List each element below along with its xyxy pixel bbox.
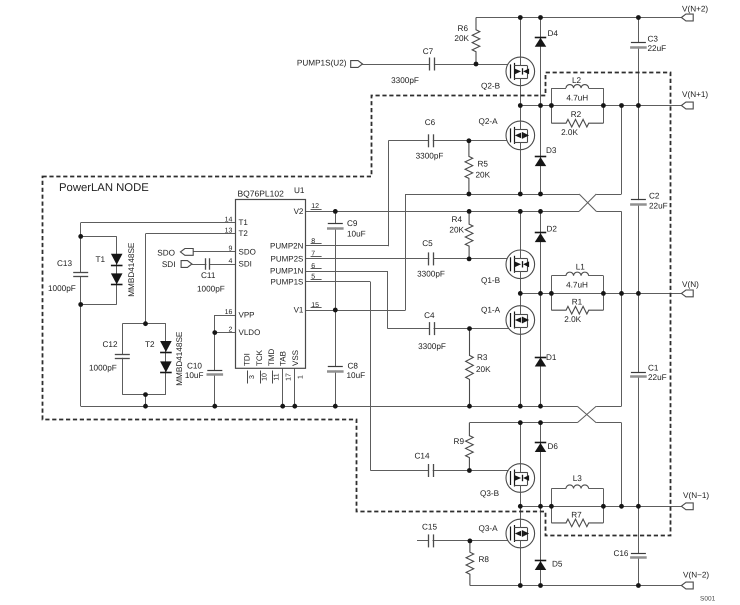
svg-text:R5: R5 bbox=[478, 159, 489, 168]
svg-text:R3: R3 bbox=[477, 353, 488, 362]
svg-text:20K: 20K bbox=[449, 226, 464, 235]
svg-text:8: 8 bbox=[311, 238, 315, 245]
svg-text:L3: L3 bbox=[573, 474, 583, 483]
svg-text:D1: D1 bbox=[546, 353, 557, 362]
svg-text:C16: C16 bbox=[613, 549, 628, 558]
svg-text:3300pF: 3300pF bbox=[391, 76, 419, 85]
svg-text:4: 4 bbox=[228, 258, 232, 265]
svg-text:22uF: 22uF bbox=[648, 44, 667, 53]
svg-text:2.0K: 2.0K bbox=[561, 128, 578, 137]
svg-text:1000pF: 1000pF bbox=[89, 363, 117, 372]
svg-text:C13: C13 bbox=[57, 259, 72, 268]
svg-text:D3: D3 bbox=[546, 146, 557, 155]
svg-text:V1: V1 bbox=[294, 305, 304, 314]
svg-text:3300pF: 3300pF bbox=[418, 342, 446, 351]
svg-text:TAB: TAB bbox=[279, 351, 288, 366]
svg-text:R4: R4 bbox=[452, 215, 463, 224]
svg-text:MMBD4148SE: MMBD4148SE bbox=[175, 331, 184, 386]
svg-text:SDI: SDI bbox=[162, 260, 176, 269]
svg-text:4.7uH: 4.7uH bbox=[566, 281, 588, 290]
svg-text:TMD: TMD bbox=[267, 348, 276, 366]
svg-text:V(N−2): V(N−2) bbox=[683, 571, 709, 580]
svg-text:D6: D6 bbox=[548, 442, 559, 451]
svg-text:10uF: 10uF bbox=[185, 371, 204, 380]
svg-text:13: 13 bbox=[225, 228, 233, 235]
svg-text:VSS: VSS bbox=[291, 350, 300, 366]
svg-text:17: 17 bbox=[285, 373, 292, 381]
svg-text:T1: T1 bbox=[239, 218, 249, 227]
svg-text:22uF: 22uF bbox=[648, 373, 667, 382]
svg-text:D5: D5 bbox=[552, 559, 563, 568]
svg-text:C6: C6 bbox=[425, 118, 436, 127]
svg-text:PUMP2S: PUMP2S bbox=[270, 254, 303, 263]
svg-text:C15: C15 bbox=[422, 522, 437, 531]
svg-text:20K: 20K bbox=[476, 170, 491, 179]
svg-text:C2: C2 bbox=[649, 192, 660, 201]
svg-text:11: 11 bbox=[273, 373, 280, 380]
svg-text:1: 1 bbox=[297, 375, 304, 379]
svg-text:C9: C9 bbox=[347, 219, 358, 228]
svg-text:14: 14 bbox=[225, 216, 233, 223]
svg-text:C7: C7 bbox=[423, 47, 434, 56]
svg-text:TDI: TDI bbox=[243, 353, 252, 366]
svg-text:V2: V2 bbox=[294, 207, 304, 216]
svg-text:C5: C5 bbox=[422, 239, 433, 248]
svg-text:Q3-A: Q3-A bbox=[479, 524, 499, 533]
svg-text:R9: R9 bbox=[454, 437, 465, 446]
svg-text:16: 16 bbox=[225, 309, 233, 316]
svg-text:PowerLAN NODE: PowerLAN NODE bbox=[59, 182, 149, 194]
svg-text:R8: R8 bbox=[479, 555, 490, 564]
svg-text:20K: 20K bbox=[476, 365, 491, 374]
svg-text:3300pF: 3300pF bbox=[417, 270, 445, 279]
svg-text:V(N+2): V(N+2) bbox=[682, 5, 708, 14]
svg-text:3300pF: 3300pF bbox=[416, 151, 444, 160]
svg-text:SDO: SDO bbox=[239, 247, 256, 256]
svg-text:V(N+1): V(N+1) bbox=[682, 90, 708, 99]
svg-text:C4: C4 bbox=[424, 311, 435, 320]
svg-text:S001: S001 bbox=[700, 596, 716, 603]
svg-text:2: 2 bbox=[228, 326, 232, 333]
svg-text:PUMP1S(U2): PUMP1S(U2) bbox=[297, 58, 347, 67]
svg-text:C8: C8 bbox=[348, 361, 359, 370]
svg-text:D4: D4 bbox=[548, 29, 559, 38]
svg-text:C12: C12 bbox=[103, 340, 118, 349]
svg-text:22uF: 22uF bbox=[649, 201, 668, 210]
svg-text:1000pF: 1000pF bbox=[48, 284, 76, 293]
svg-text:L1: L1 bbox=[576, 263, 586, 272]
svg-text:C1: C1 bbox=[648, 363, 659, 372]
svg-text:PUMP1S: PUMP1S bbox=[270, 277, 303, 286]
svg-text:C11: C11 bbox=[201, 271, 216, 280]
svg-text:TCK: TCK bbox=[255, 349, 264, 366]
svg-text:9: 9 bbox=[228, 246, 232, 253]
svg-text:PUMP2N: PUMP2N bbox=[270, 242, 304, 251]
svg-text:R1: R1 bbox=[572, 297, 583, 306]
svg-text:R6: R6 bbox=[458, 24, 469, 33]
svg-text:SDI: SDI bbox=[239, 259, 252, 268]
svg-text:V(N): V(N) bbox=[682, 280, 699, 289]
svg-text:C10: C10 bbox=[187, 361, 202, 370]
svg-text:PUMP1N: PUMP1N bbox=[270, 266, 304, 275]
svg-text:BQ76PL102: BQ76PL102 bbox=[238, 189, 285, 199]
svg-text:20K: 20K bbox=[454, 34, 469, 43]
svg-text:R7: R7 bbox=[571, 511, 582, 520]
svg-text:VPP: VPP bbox=[239, 310, 255, 319]
svg-text:1000pF: 1000pF bbox=[197, 284, 225, 293]
svg-text:C3: C3 bbox=[648, 34, 659, 43]
svg-text:V(N−1): V(N−1) bbox=[683, 491, 709, 500]
svg-text:U1: U1 bbox=[294, 186, 305, 195]
svg-text:T1: T1 bbox=[96, 255, 106, 264]
svg-text:3: 3 bbox=[249, 375, 256, 379]
svg-text:Q2-A: Q2-A bbox=[479, 117, 499, 126]
svg-text:C14: C14 bbox=[414, 452, 429, 461]
svg-text:SDO: SDO bbox=[157, 248, 175, 257]
svg-text:Q2-B: Q2-B bbox=[481, 81, 501, 90]
svg-text:10uF: 10uF bbox=[347, 371, 366, 380]
svg-text:R2: R2 bbox=[571, 110, 582, 119]
svg-text:10: 10 bbox=[261, 373, 268, 381]
svg-text:MMBD4148SE: MMBD4148SE bbox=[127, 242, 136, 297]
svg-text:Q1-B: Q1-B bbox=[481, 276, 501, 285]
svg-text:4.7uH: 4.7uH bbox=[566, 94, 588, 103]
svg-text:T2: T2 bbox=[239, 229, 249, 238]
svg-text:10uF: 10uF bbox=[347, 229, 366, 238]
svg-text:VLDO: VLDO bbox=[239, 328, 261, 337]
svg-text:D2: D2 bbox=[547, 224, 558, 233]
svg-text:Q1-A: Q1-A bbox=[481, 305, 501, 314]
svg-text:L2: L2 bbox=[572, 76, 582, 85]
svg-text:T2: T2 bbox=[145, 340, 155, 349]
svg-text:2.0K: 2.0K bbox=[564, 315, 581, 324]
svg-text:Q3-B: Q3-B bbox=[480, 489, 500, 498]
